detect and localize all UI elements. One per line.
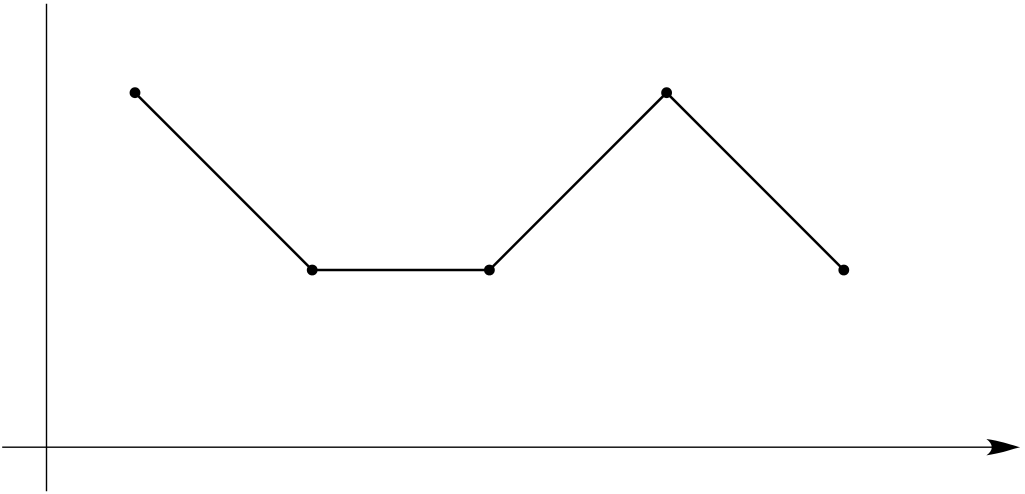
y-axis	[46, 4, 48, 491]
data point 2	[307, 265, 318, 276]
x-axis	[2, 446, 1000, 448]
x-axis arrowhead	[986, 439, 1020, 455]
data point 4	[661, 87, 672, 98]
data point 5	[838, 265, 849, 276]
data polyline	[135, 93, 844, 270]
data point 1	[130, 87, 141, 98]
data point 3	[484, 265, 495, 276]
